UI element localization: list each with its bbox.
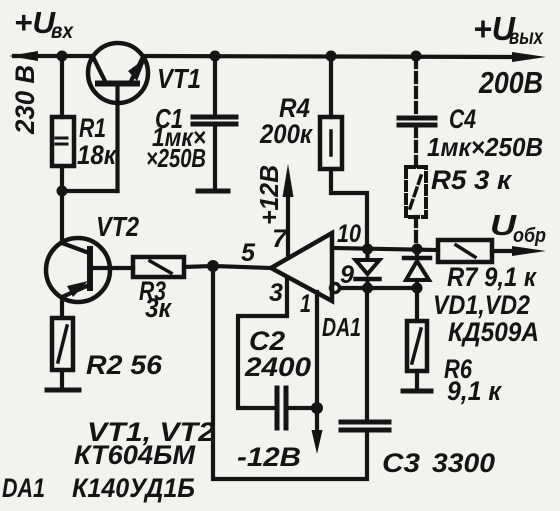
node junction C4 top (411, 51, 422, 62)
svg-text:К140УД1Б: К140УД1Б (72, 473, 195, 503)
svg-text:КТ604БМ: КТ604БМ (74, 440, 196, 470)
svg-text:1: 1 (300, 290, 311, 318)
diode VD2 (404, 249, 430, 288)
wire C1 top lead (213, 56, 217, 115)
label C1 value (146, 103, 206, 173)
wire base link (62, 189, 118, 193)
node Uobr arrow (512, 246, 546, 256)
node op-amp output (207, 260, 219, 272)
resistor R4 (320, 117, 342, 169)
svg-text:2400: 2400 (244, 352, 311, 382)
node junction R4 top (326, 51, 337, 62)
wire R4 to pin10 (331, 169, 367, 246)
label pin 9 (340, 261, 354, 289)
svg-text:КД509А: КД509А (448, 317, 539, 347)
wire R1 bottom lead (60, 166, 64, 191)
label 230V (10, 65, 40, 135)
svg-text:9: 9 (340, 261, 354, 289)
label R2 value (86, 350, 163, 380)
label -12V (237, 442, 301, 472)
node -12V arrow (312, 430, 323, 454)
node pin9 bubble (331, 284, 340, 293)
node junction VD1 top (362, 244, 373, 255)
label pin 5 (241, 239, 256, 267)
diode VD1 (356, 250, 380, 288)
svg-text:230 В: 230 В (10, 65, 40, 135)
svg-text:5: 5 (241, 239, 256, 267)
svg-text:3300: 3300 (432, 448, 495, 478)
capacitor C1 (193, 117, 236, 124)
wire pin 7 supply (286, 192, 290, 258)
label pin 1 (300, 290, 311, 318)
ground R6 (403, 389, 431, 394)
svg-text:R1: R1 (79, 113, 106, 143)
node junction R1 top (57, 51, 68, 62)
svg-text:+12В: +12В (254, 165, 284, 225)
transistor VT2 (46, 238, 110, 302)
label 200V (478, 65, 543, 100)
label pin 10 (337, 220, 361, 248)
label +Uvyh (473, 10, 544, 49)
wire C2 to pin1 (288, 406, 317, 410)
wire VT2 emitter (60, 297, 64, 318)
wire pin 9 row (340, 286, 417, 290)
wire pin 10 row (332, 248, 438, 250)
label VT1 VT2 type (74, 417, 215, 470)
ground C1 (198, 189, 228, 194)
node junction R1 bottom (57, 186, 68, 197)
wire VT1 base down (115, 84, 119, 192)
label VT1 (157, 63, 201, 94)
label +Uvx (14, 5, 74, 43)
wire R1 top lead (60, 56, 64, 117)
svg-text:C4: C4 (449, 104, 476, 134)
label R7 value (447, 262, 537, 292)
svg-text:VD1,VD2: VD1,VD2 (433, 290, 530, 320)
svg-text:3к: 3к (145, 293, 172, 323)
resistor R7 (438, 240, 492, 262)
ground R2 (47, 388, 79, 393)
wire VT2 base to R3 (90, 266, 133, 270)
label C3 value (382, 448, 495, 478)
label C4 value (427, 104, 543, 162)
wire R3 to node (184, 266, 213, 267)
label +12V (254, 165, 284, 225)
capacitor C3 (341, 422, 389, 430)
label DA1 type (2, 473, 195, 503)
svg-text:-12В: -12В (237, 442, 301, 472)
label R1 value (77, 113, 117, 170)
svg-text:R7 9,1 к: R7 9,1 к (447, 262, 537, 292)
svg-text:VT1: VT1 (157, 63, 201, 94)
wire VT2 collector (60, 191, 64, 243)
svg-text:R2 56: R2 56 (86, 350, 163, 380)
resistor R6 (407, 321, 427, 371)
wire C4 to R5 dashed (414, 127, 418, 167)
node junction VD2 bottom (412, 283, 423, 294)
wire top rail left segment (14, 54, 92, 58)
wire VD2 to R6 (415, 288, 419, 321)
svg-text:9,1 к: 9,1 к (447, 376, 502, 406)
wire C4 dashed top lead (414, 58, 418, 114)
label VD1 VD2 (433, 290, 539, 347)
svg-text:DA1: DA1 (2, 473, 45, 503)
node junction VD2 top (412, 244, 423, 255)
resistor R2 (52, 318, 73, 370)
wire top rail right segment (144, 56, 516, 57)
svg-text:вх: вх (51, 20, 74, 43)
svg-text:вых: вых (509, 26, 544, 49)
label VT2 (96, 211, 139, 242)
svg-text:200к: 200к (259, 119, 313, 149)
svg-text:VT2: VT2 (96, 211, 139, 242)
label C2 value (244, 326, 311, 382)
svg-text:×250В: ×250В (146, 143, 206, 173)
wire pin 3 (238, 278, 287, 408)
label pin 3 (269, 279, 283, 307)
svg-text:DA1: DA1 (322, 312, 361, 342)
label pin 7 (272, 225, 288, 253)
wire R7 to output arrow (492, 249, 516, 253)
transistor VT1 (88, 43, 148, 103)
resistor R5 (406, 167, 426, 217)
resistor R1 (52, 117, 74, 166)
resistor R3 (133, 257, 184, 277)
label R3 value (139, 276, 172, 323)
wire R6 bottom lead (415, 371, 419, 390)
svg-text:200В: 200В (478, 65, 543, 100)
capacitor C2 (277, 388, 286, 428)
node junction C2 pin1 (311, 402, 323, 414)
label R6 value (444, 354, 502, 406)
wire R2 bottom lead (60, 370, 64, 389)
wire C3 to pin9 row (365, 288, 369, 421)
node +12V arrow (283, 164, 294, 197)
wire R5 dashed bottom lead (414, 217, 418, 245)
svg-text:обр: обр (513, 225, 546, 247)
op-amp DA1 (271, 233, 332, 301)
svg-text:1мк×250В: 1мк×250В (427, 132, 543, 162)
node input arrow +Uvx (9, 51, 38, 61)
svg-text:R5 3 к: R5 3 к (431, 165, 512, 195)
wire pin 1 (315, 292, 319, 432)
label R4 value (259, 93, 313, 149)
node output arrow +Uvyh (512, 52, 546, 62)
svg-text:3: 3 (269, 279, 283, 307)
wire R4 top lead (329, 56, 333, 117)
label DA1 (322, 312, 361, 342)
svg-text:C3: C3 (382, 448, 420, 478)
wire C1 bottom lead (213, 126, 217, 190)
svg-text:10: 10 (337, 220, 361, 248)
label Uobr (490, 210, 546, 247)
svg-text:7: 7 (272, 225, 288, 253)
wire feedback loop (213, 266, 367, 479)
node junction VD1 bottom (362, 283, 373, 294)
wire node to op-amp (213, 266, 271, 268)
label R5 value (431, 165, 512, 195)
capacitor C4 (399, 118, 435, 125)
svg-text:18к: 18к (77, 140, 117, 170)
node junction C1 top (210, 51, 221, 62)
